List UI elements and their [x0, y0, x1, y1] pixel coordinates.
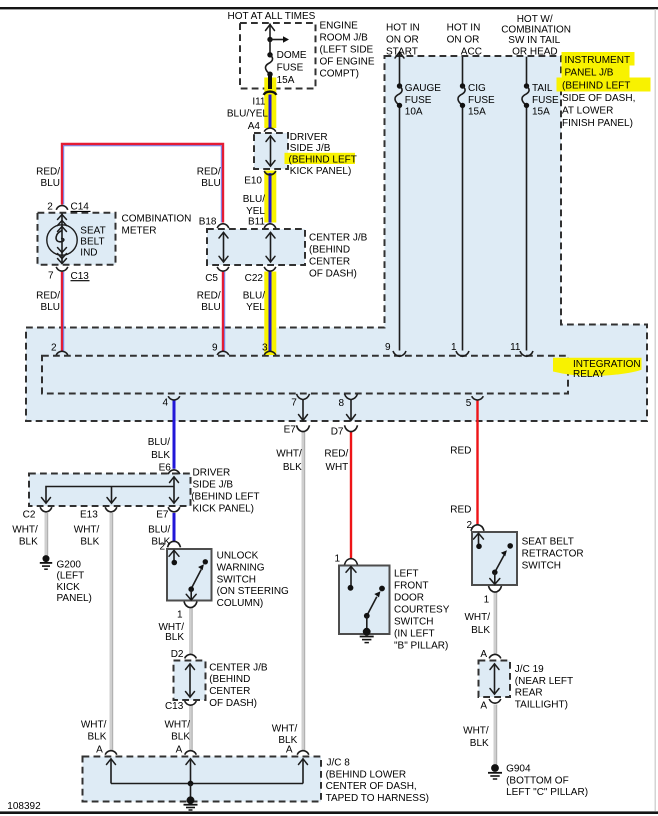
svg-text:RETRACTOR: RETRACTOR: [522, 548, 584, 559]
svg-text:(BEHIND LEFT: (BEHIND LEFT: [562, 80, 630, 91]
connector retractor switch pin 2: [471, 525, 484, 531]
svg-text:I11: I11: [252, 97, 266, 108]
wire gauge fuse top: [399, 52, 401, 85]
connector E6: [168, 470, 180, 474]
svg-text:FRONT: FRONT: [394, 580, 428, 591]
wire WHT/BLK C2 down to G200: [46, 513, 48, 556]
svg-text:(LEFT: (LEFT: [57, 571, 85, 582]
svg-text:E13: E13: [80, 510, 98, 521]
svg-text:TAIL: TAIL: [532, 83, 553, 94]
svg-text:RED: RED: [450, 504, 471, 515]
svg-text:SIDE J/B: SIDE J/B: [290, 143, 331, 154]
connector C13: [56, 267, 68, 271]
connector C5: [217, 267, 229, 271]
wire WHT/BLK retractor switch pin 1 down to J/C 19 pin A: [495, 592, 497, 654]
svg-text:BLU: BLU: [41, 178, 60, 189]
wire RED/BLU meter C13 down to relay pin 2: [62, 272, 64, 351]
svg-text:AT LOWER: AT LOWER: [562, 105, 613, 116]
svg-text:RED/: RED/: [197, 167, 221, 178]
svg-text:OR HEAD: OR HEAD: [512, 46, 558, 57]
svg-text:B18: B18: [199, 216, 217, 227]
svg-text:10A: 10A: [405, 106, 423, 117]
connector J/C 8 pin A x111: [105, 751, 117, 755]
connector fork relay pin 1: [456, 351, 469, 356]
wire BLU/YEL C22 to relay pin 3: [269, 272, 272, 352]
svg-text:BLK: BLK: [471, 625, 490, 636]
svg-text:COMBINATION: COMBINATION: [501, 24, 571, 35]
driver side J/B 2 internal arrow E6-E7: [170, 477, 179, 504]
svg-text:IND: IND: [80, 248, 97, 259]
svg-text:COURTESY: COURTESY: [394, 604, 450, 615]
wire WHT/BLK unlock switch pin 1 down to D2: [191, 607, 193, 654]
svg-text:FUSE: FUSE: [277, 62, 304, 73]
svg-text:BLU: BLU: [201, 302, 220, 313]
svg-text:GAUGE: GAUGE: [405, 83, 441, 94]
unlock warning switch box: [167, 549, 212, 601]
connector relay pin 9 left: [217, 351, 229, 355]
svg-text:HOT W/: HOT W/: [517, 14, 553, 25]
driver side J/B internal arrow (A4-E10): [266, 136, 275, 167]
svg-text:FUSE: FUSE: [468, 95, 495, 106]
svg-text:WHT/: WHT/: [158, 622, 184, 633]
wire BLU/BLK relay pin 4 down to E6: [173, 400, 176, 469]
svg-text:9: 9: [385, 342, 391, 353]
label C14 underlined: [71, 202, 91, 213]
connector relay pin 2: [56, 351, 68, 355]
svg-text:ACC: ACC: [461, 46, 482, 57]
svg-text:"B" PILLAR): "B" PILLAR): [394, 640, 448, 651]
svg-text:(BEHIND: (BEHIND: [209, 674, 250, 685]
svg-text:1: 1: [177, 609, 183, 620]
wire WHT/BLK C13 down to J/C 8 pin A: [191, 706, 193, 751]
J/C 8 box: [83, 757, 322, 802]
svg-text:(NEAR LEFT: (NEAR LEFT: [515, 676, 573, 687]
svg-text:BLU/: BLU/: [148, 437, 170, 448]
svg-text:8: 8: [338, 398, 344, 409]
svg-text:108392: 108392: [7, 801, 41, 812]
svg-text:RED/: RED/: [36, 167, 60, 178]
svg-text:RED/: RED/: [197, 291, 221, 302]
wire cig fuse down to relay pin 1: [462, 106, 464, 351]
connector J/C 19 pin A top: [489, 654, 501, 658]
cig fuse 15A: [458, 83, 465, 108]
label C13 underlined: [71, 271, 90, 282]
connector unlock switch pin 2: [168, 541, 181, 547]
svg-text:J/C 8: J/C 8: [327, 758, 351, 769]
svg-text:YEL: YEL: [246, 302, 265, 313]
svg-text:C13: C13: [165, 701, 184, 712]
connector relay pin 4: [168, 396, 180, 400]
connector I11: [264, 92, 277, 95]
svg-text:FINISH PANEL): FINISH PANEL): [562, 118, 633, 129]
frame right edge line: [655, 9, 656, 811]
connector fork relay pin 11: [520, 351, 533, 356]
svg-text:LEFT: LEFT: [394, 568, 418, 579]
svg-text:RED/: RED/: [324, 448, 348, 459]
highlight on BLU/YEL wire C22 to relay pin 3: [264, 272, 276, 356]
wire BLU/YEL I11 to A4: [269, 95, 272, 129]
svg-text:PANEL): PANEL): [57, 593, 92, 604]
relay pin 8 fork and arrow down: [345, 394, 358, 421]
seat belt indicator lamp: [47, 213, 77, 263]
svg-text:HOT IN: HOT IN: [386, 22, 420, 33]
svg-text:CENTER J/B: CENTER J/B: [309, 233, 368, 244]
svg-text:WHT/: WHT/: [272, 723, 298, 734]
relay pin 7 fork and arrow down: [297, 394, 310, 421]
highlight instrument panel label line 3: [557, 78, 651, 92]
svg-text:KICK PANEL): KICK PANEL): [290, 166, 352, 177]
svg-text:1: 1: [451, 342, 457, 353]
svg-text:B11: B11: [248, 216, 265, 227]
svg-text:E7: E7: [156, 510, 169, 521]
svg-text:E6: E6: [159, 462, 172, 473]
svg-text:TAILLIGHT): TAILLIGHT): [515, 700, 568, 711]
wire tail fuse down to relay pin 11: [526, 106, 528, 351]
instrument panel J/B box merged with integration relay outer box: [26, 56, 647, 421]
wire WHT/BLK relay pin 7 (E7) down to J/C 8 pin A: [303, 432, 305, 751]
junction node dot: [267, 37, 272, 42]
svg-text:4: 4: [162, 397, 168, 408]
svg-text:WHT/: WHT/: [464, 612, 490, 623]
svg-text:SWITCH: SWITCH: [522, 560, 561, 571]
svg-text:SEAT BELT: SEAT BELT: [522, 537, 574, 548]
wire RED/BLU C5 down to relay pin 9: [223, 272, 225, 351]
seat belt retractor switch box: [472, 532, 517, 585]
highlight instrument panel label line 1: [562, 52, 635, 66]
J/C 8 internal bus and arrows: [107, 759, 308, 798]
svg-text:METER: METER: [122, 225, 157, 236]
svg-text:WHT/: WHT/: [74, 525, 100, 536]
ground G200: [40, 555, 52, 569]
svg-text:D7: D7: [331, 426, 344, 437]
svg-text:BLK: BLK: [80, 536, 99, 547]
svg-text:(LEFT SIDE: (LEFT SIDE: [320, 45, 374, 56]
J/C 19 box: [479, 661, 511, 698]
svg-text:15A: 15A: [532, 106, 550, 117]
svg-text:COLUMN): COLUMN): [217, 598, 264, 609]
connector J/C 19 pin A bottom: [489, 699, 501, 703]
svg-text:11: 11: [510, 342, 521, 353]
svg-text:15A: 15A: [468, 106, 486, 117]
svg-text:2: 2: [466, 520, 472, 531]
connector retractor switch pin 1: [489, 586, 502, 592]
left front door courtesy switch box: [339, 566, 390, 635]
svg-text:PANEL J/B: PANEL J/B: [565, 68, 614, 79]
svg-text:WHT: WHT: [326, 462, 349, 473]
dome fuse 15A: [265, 52, 272, 77]
svg-text:INSTRUMENT: INSTRUMENT: [565, 55, 631, 66]
gauge fuse 10A with feed arrow: [395, 52, 404, 108]
wire RED relay pin 5 down to retractor switch pin 2: [476, 400, 478, 526]
svg-text:CENTER OF DASH,: CENTER OF DASH,: [326, 781, 417, 792]
svg-text:A: A: [286, 745, 293, 756]
svg-text:A: A: [480, 649, 487, 660]
svg-text:OF DASH): OF DASH): [309, 269, 357, 280]
svg-text:(BEHIND LOWER: (BEHIND LOWER: [326, 769, 407, 780]
svg-text:SWITCH: SWITCH: [217, 574, 256, 585]
connector relay pin 3: [264, 351, 276, 355]
wire WHT/BLK J/C 19 pin A down to G904: [495, 705, 497, 765]
center J/B box (D2-C13): [174, 661, 206, 701]
engine room J/B box: [240, 23, 316, 89]
combination meter box: [38, 213, 116, 265]
svg-text:(BEHIND LEFT: (BEHIND LEFT: [191, 491, 259, 502]
highlight driver side J/B label line 3: [285, 153, 356, 164]
svg-text:CENTER: CENTER: [209, 686, 250, 697]
svg-text:WHT/: WHT/: [276, 448, 302, 459]
wire gauge fuse down to relay pin 9: [399, 106, 401, 351]
center J/B box (B18/B11-C5/C22): [207, 229, 305, 265]
svg-text:2: 2: [47, 201, 53, 212]
svg-text:ENGINE: ENGINE: [320, 21, 359, 32]
wire RED/WHT D7 down to courtesy switch pin 1: [350, 432, 352, 560]
integration relay inner box: [42, 356, 568, 394]
courtesy switch case ground: [360, 628, 374, 643]
svg-text:BLK: BLK: [283, 462, 302, 473]
svg-text:ON OR: ON OR: [386, 34, 419, 45]
svg-text:1: 1: [484, 594, 490, 605]
svg-text:(ON STEERING: (ON STEERING: [217, 586, 289, 597]
svg-text:CENTER: CENTER: [309, 257, 350, 268]
svg-text:BLU/: BLU/: [243, 291, 265, 302]
svg-text:BLU/: BLU/: [243, 194, 265, 205]
svg-text:C2: C2: [23, 510, 36, 521]
svg-text:BLU: BLU: [41, 302, 60, 313]
svg-text:E7: E7: [284, 424, 297, 435]
svg-text:DRIVER: DRIVER: [290, 132, 328, 143]
highlight on BLU/YEL wire below dome fuse: [264, 78, 276, 129]
svg-text:SIDE J/B: SIDE J/B: [193, 480, 234, 491]
svg-text:BLU/YEL: BLU/YEL: [227, 109, 269, 120]
wire BLU/YEL E10 to B11: [269, 173, 272, 223]
center J/B internal arrow (B11-C22): [266, 232, 275, 262]
frame bottom border: [0, 811, 658, 814]
ground G904: [488, 764, 502, 779]
J/C 19 internal arrow: [490, 664, 499, 695]
connector A4: [264, 128, 276, 132]
wire black dome fuse to engine box edge: [268, 75, 272, 90]
wire WHT/BLK E13 down to J/C 8 pin A: [111, 513, 113, 751]
svg-text:SW IN TAIL: SW IN TAIL: [508, 35, 560, 46]
svg-text:KICK: KICK: [57, 582, 81, 593]
svg-text:KICK PANEL): KICK PANEL): [193, 503, 255, 514]
svg-text:G904: G904: [506, 763, 531, 774]
svg-text:SEAT: SEAT: [80, 226, 105, 237]
dome fuse feed wire with up arrow: [266, 24, 275, 40]
svg-text:A: A: [96, 745, 103, 756]
svg-text:SWITCH: SWITCH: [394, 616, 433, 627]
svg-text:ROOM J/B: ROOM J/B: [320, 33, 369, 44]
branch feed arrow right: [270, 36, 289, 42]
svg-text:BELT: BELT: [80, 237, 104, 248]
svg-text:OF DASH): OF DASH): [209, 698, 257, 709]
J/C 8 ground: [184, 796, 198, 810]
connector courtesy switch pin 1: [345, 559, 358, 565]
svg-text:A: A: [480, 700, 487, 711]
svg-text:WARNING: WARNING: [217, 563, 265, 574]
connector C13 lower: [185, 701, 197, 705]
wire tail fuse top: [526, 57, 528, 85]
wire RED/BLU combination meter C14 up over to B18: [62, 144, 223, 223]
svg-text:OF ENGINE: OF ENGINE: [320, 57, 375, 68]
svg-text:E10: E10: [244, 175, 262, 186]
connector D7 below relay: [345, 425, 358, 431]
highlight on BLU/YEL wire E10 to B11: [264, 171, 276, 223]
driver side J/B box (E6-C2/E13/E7): [29, 474, 191, 507]
svg-text:(BEHIND LEFT: (BEHIND LEFT: [289, 154, 357, 165]
svg-text:BLU: BLU: [201, 178, 220, 189]
highlight instrument panel label line 2: [562, 66, 630, 79]
svg-text:COMBINATION: COMBINATION: [122, 214, 192, 225]
wire cig fuse top: [462, 57, 464, 85]
connector unlock switch pin 1: [184, 602, 197, 608]
center J/B 2 internal arrow D2-C13: [186, 664, 195, 698]
svg-text:LEFT "C" PILLAR): LEFT "C" PILLAR): [506, 787, 588, 798]
svg-text:WHT/: WHT/: [164, 720, 190, 731]
tail fuse 15A: [522, 83, 529, 108]
driver side J/B box (A4-E10): [254, 133, 288, 169]
svg-text:BLK: BLK: [470, 738, 489, 749]
svg-text:CENTER J/B: CENTER J/B: [209, 662, 268, 673]
svg-text:HOT IN: HOT IN: [447, 22, 481, 33]
svg-text:BLK: BLK: [171, 731, 190, 742]
svg-text:C22: C22: [245, 273, 264, 284]
svg-text:ON OR: ON OR: [447, 34, 480, 45]
svg-text:J/C 19: J/C 19: [515, 664, 544, 675]
connector E10: [264, 171, 276, 175]
svg-text:DRIVER: DRIVER: [193, 468, 231, 479]
frame top border: [0, 7, 658, 9]
wire BLU/BLK E7 down to unlock warning switch pin 2: [173, 513, 176, 542]
svg-text:15A: 15A: [277, 75, 295, 86]
svg-text:RED: RED: [450, 445, 471, 456]
svg-text:WHT/: WHT/: [12, 525, 38, 536]
svg-text:CIG: CIG: [468, 83, 486, 94]
svg-text:1: 1: [334, 553, 340, 564]
svg-text:BLK: BLK: [87, 731, 106, 742]
svg-text:FUSE: FUSE: [532, 95, 559, 106]
driver side J/B 2 internal branch to C2 and E13: [42, 487, 175, 504]
connector E7 lower: [168, 507, 180, 512]
svg-text:BLU/: BLU/: [148, 525, 170, 536]
connector C14: [56, 205, 68, 209]
connector B11: [264, 224, 276, 229]
svg-text:WHT/: WHT/: [81, 720, 107, 731]
wire node to fuse: [269, 40, 271, 55]
svg-text:9: 9: [212, 342, 218, 353]
svg-text:UNLOCK: UNLOCK: [217, 551, 259, 562]
svg-text:7: 7: [48, 270, 54, 281]
retractor switch internals: [474, 533, 514, 584]
svg-text:D2: D2: [171, 649, 184, 660]
svg-text:TAPED TO HARNESS): TAPED TO HARNESS): [326, 793, 429, 804]
connector fork relay pin 9 right: [393, 351, 406, 356]
svg-text:2: 2: [159, 541, 165, 552]
connector E7 below relay: [297, 425, 310, 431]
svg-text:BLK: BLK: [165, 632, 184, 643]
svg-text:7: 7: [291, 397, 297, 408]
svg-text:A: A: [176, 745, 183, 756]
svg-text:DOME: DOME: [277, 50, 307, 61]
svg-text:START: START: [386, 46, 418, 57]
svg-text:YEL: YEL: [246, 206, 265, 217]
svg-text:(IN LEFT: (IN LEFT: [394, 628, 435, 639]
center J/B internal arrow (B18-C5): [219, 232, 228, 262]
connector relay pin 5: [472, 396, 484, 400]
svg-text:SIDE OF DASH,: SIDE OF DASH,: [562, 93, 635, 104]
svg-text:C5: C5: [205, 273, 218, 284]
connector B18: [217, 224, 229, 229]
svg-text:HOT AT ALL TIMES: HOT AT ALL TIMES: [228, 11, 316, 22]
connector D2: [185, 654, 197, 658]
svg-text:DOOR: DOOR: [394, 592, 424, 603]
highlight integration relay label marker swipe: [553, 358, 642, 376]
connector J/C 8 pin A x190: [185, 751, 197, 755]
svg-text:RED/: RED/: [36, 291, 60, 302]
svg-text:5: 5: [466, 398, 472, 409]
svg-text:COMPT): COMPT): [320, 69, 359, 80]
svg-text:WHT/: WHT/: [463, 725, 489, 736]
svg-text:2: 2: [51, 342, 57, 353]
connector J/C 8 pin A x303: [297, 751, 309, 755]
svg-text:G200: G200: [57, 560, 82, 571]
svg-text:A4: A4: [248, 121, 261, 132]
unlock warning switch internals: [169, 550, 208, 600]
svg-text:3: 3: [262, 342, 268, 353]
svg-text:BLK: BLK: [19, 536, 38, 547]
svg-text:BLK: BLK: [151, 450, 170, 461]
connector C2: [40, 507, 52, 512]
svg-text:REAR: REAR: [515, 688, 543, 699]
svg-text:(BOTTOM OF: (BOTTOM OF: [506, 775, 569, 786]
connector C22: [264, 267, 276, 271]
svg-text:RELAY: RELAY: [573, 369, 605, 380]
svg-text:FUSE: FUSE: [405, 95, 432, 106]
connector E13: [105, 507, 117, 512]
svg-text:(BEHIND: (BEHIND: [309, 245, 350, 256]
courtesy switch internals: [346, 566, 385, 630]
